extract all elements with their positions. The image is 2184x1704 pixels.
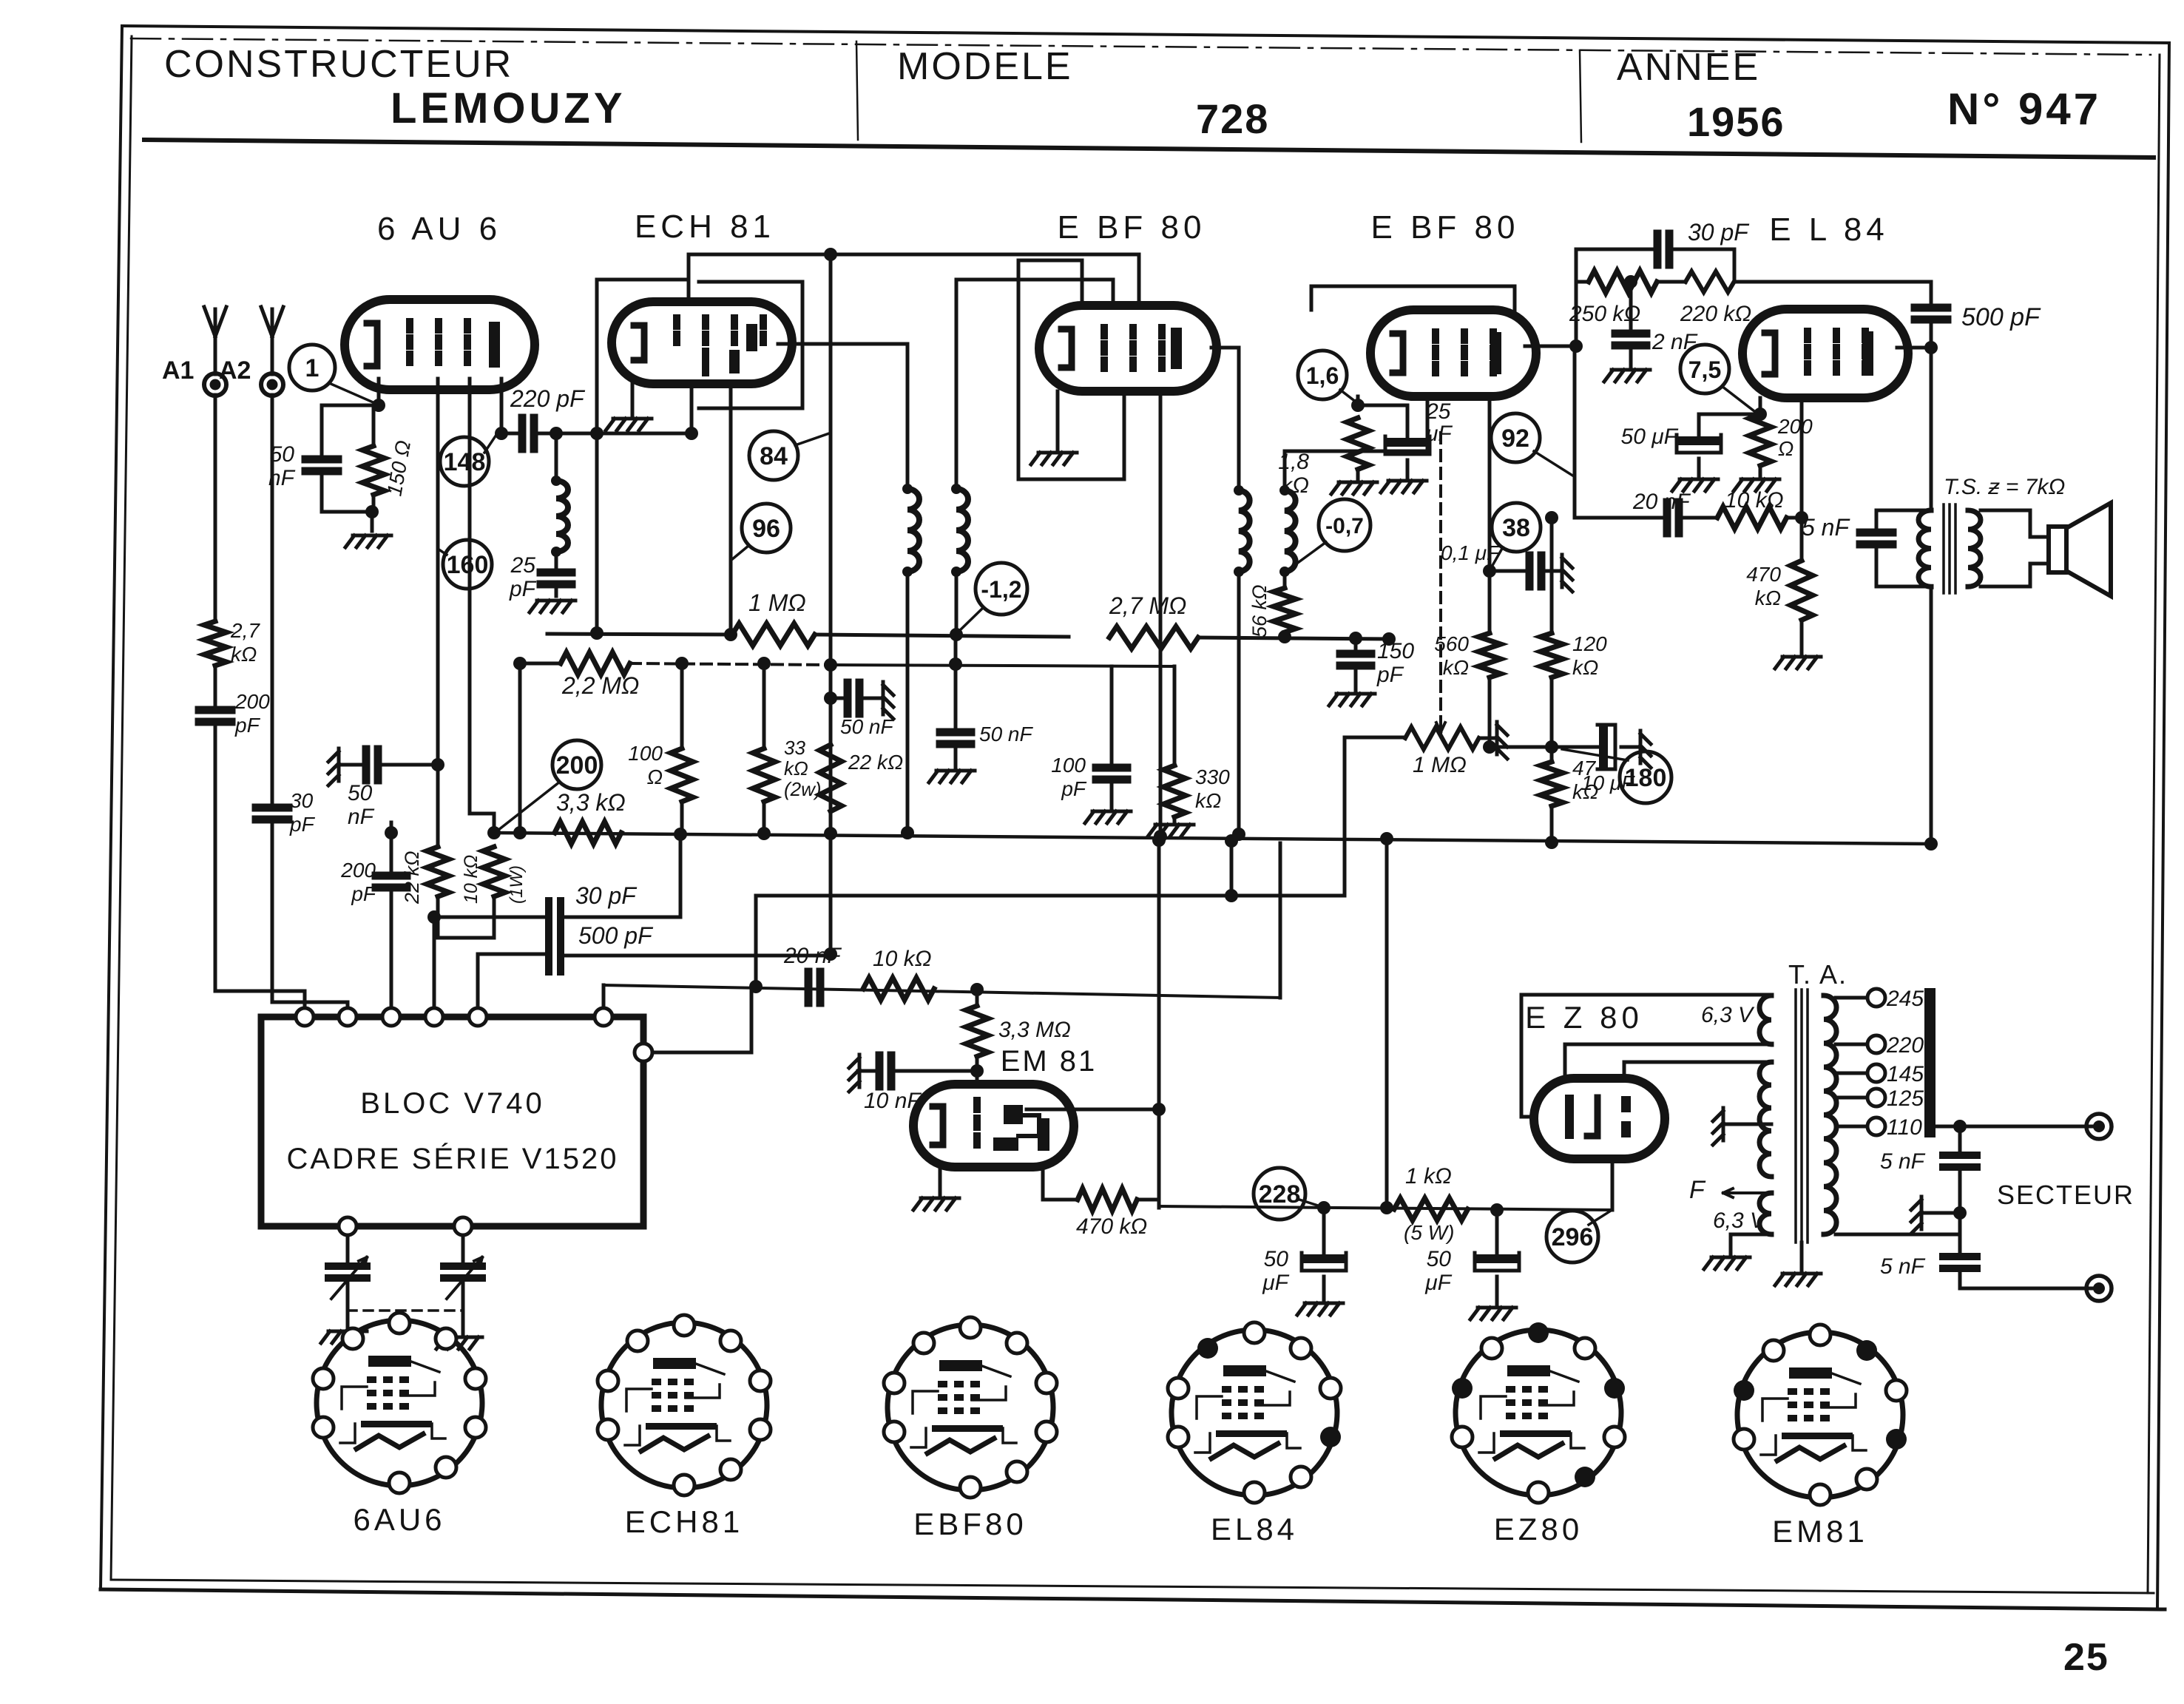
svg-text:pF: pF (509, 577, 537, 601)
svg-text:5 nF: 5 nF (1880, 1149, 1926, 1174)
svg-text:F: F (1689, 1176, 1706, 1204)
svg-text:500 pF: 500 pF (1961, 303, 2041, 331)
svg-text:BLOC V740: BLOC V740 (360, 1087, 544, 1120)
svg-text:kΩ: kΩ (1755, 586, 1781, 609)
svg-text:3,3 MΩ: 3,3 MΩ (998, 1018, 1071, 1042)
svg-text:200: 200 (234, 690, 270, 713)
svg-text:6,3 V: 6,3 V (1701, 1003, 1755, 1027)
svg-text:kΩ: kΩ (1195, 789, 1221, 812)
svg-text:200: 200 (340, 859, 376, 882)
svg-text:96: 96 (752, 515, 780, 543)
svg-text:245: 245 (1886, 987, 1924, 1011)
svg-text:CADRE SÉRIE V1520: CADRE SÉRIE V1520 (287, 1142, 619, 1175)
svg-text:470 kΩ: 470 kΩ (1076, 1214, 1147, 1239)
svg-text:(2w): (2w) (784, 778, 822, 800)
svg-text:200: 200 (1777, 415, 1813, 438)
svg-text:E BF 80: E BF 80 (1371, 209, 1520, 246)
svg-text:0,1 μF: 0,1 μF (1441, 541, 1501, 564)
svg-text:50: 50 (270, 442, 295, 467)
svg-text:μF: μF (1262, 1271, 1289, 1295)
svg-text:200: 200 (556, 751, 598, 780)
svg-text:kΩ: kΩ (1572, 656, 1598, 679)
svg-text:6 AU 6: 6 AU 6 (377, 211, 501, 247)
svg-text:ANNEE: ANNEE (1617, 46, 1760, 89)
svg-text:56 kΩ: 56 kΩ (1248, 584, 1271, 638)
svg-text:220 pF: 220 pF (510, 385, 586, 412)
svg-text:50 μF: 50 μF (1621, 425, 1679, 449)
svg-text:-1,2: -1,2 (981, 576, 1021, 603)
svg-text:25: 25 (510, 553, 536, 578)
svg-text:(5 W): (5 W) (1404, 1221, 1454, 1244)
svg-text:nF: nF (348, 805, 375, 829)
svg-text:T.S. ƶ = 7kΩ: T.S. ƶ = 7kΩ (1944, 475, 2065, 499)
svg-text:kΩ: kΩ (1572, 780, 1598, 803)
svg-text:T. A.: T. A. (1788, 959, 1847, 990)
svg-text:5 nF: 5 nF (1880, 1254, 1926, 1279)
svg-text:500 pF: 500 pF (578, 922, 654, 949)
svg-text:33: 33 (784, 737, 805, 759)
svg-text:1,8: 1,8 (1278, 450, 1309, 474)
svg-text:470: 470 (1746, 563, 1781, 586)
svg-text:20 nF: 20 nF (1632, 490, 1691, 514)
svg-text:10 kΩ: 10 kΩ (461, 855, 481, 904)
svg-text:kΩ: kΩ (1443, 656, 1469, 679)
svg-text:kΩ: kΩ (784, 757, 808, 780)
svg-text:EBF80: EBF80 (913, 1507, 1027, 1541)
svg-text:pF: pF (234, 714, 261, 737)
svg-text:1956: 1956 (1687, 98, 1785, 145)
svg-text:pF: pF (351, 882, 377, 905)
svg-text:A1: A1 (162, 356, 194, 385)
svg-text:MODELE: MODELE (897, 45, 1073, 88)
svg-text:84: 84 (760, 442, 788, 470)
svg-text:E BF 80: E BF 80 (1058, 209, 1206, 246)
svg-text:150: 150 (1377, 639, 1414, 663)
svg-text:-0,7: -0,7 (1325, 514, 1364, 538)
svg-text:ECH81: ECH81 (625, 1504, 743, 1539)
svg-text:22 kΩ: 22 kΩ (848, 751, 903, 774)
svg-text:6,3 V: 6,3 V (1713, 1208, 1767, 1233)
svg-text:160: 160 (447, 551, 489, 579)
svg-text:pF: pF (1061, 777, 1087, 800)
svg-text:(1W): (1W) (507, 865, 527, 904)
svg-text:LEMOUZY: LEMOUZY (391, 84, 626, 132)
svg-text:50 nF: 50 nF (840, 715, 894, 738)
svg-text:E L 84: E L 84 (1769, 212, 1889, 248)
svg-text:47: 47 (1572, 757, 1597, 780)
svg-text:50: 50 (1427, 1247, 1452, 1271)
svg-text:1 MΩ: 1 MΩ (748, 589, 806, 616)
svg-text:728: 728 (1196, 95, 1269, 142)
svg-text:10 nF: 10 nF (864, 1089, 922, 1113)
svg-text:EZ80: EZ80 (1494, 1512, 1583, 1546)
svg-text:148: 148 (444, 448, 486, 476)
svg-text:100: 100 (628, 742, 663, 765)
svg-text:330: 330 (1195, 765, 1230, 788)
svg-text:20 nF: 20 nF (783, 944, 842, 968)
svg-text:30 pF: 30 pF (575, 882, 638, 909)
svg-text:EM81: EM81 (1772, 1514, 1868, 1549)
svg-text:E Z 80: E Z 80 (1525, 1000, 1643, 1035)
svg-text:220 kΩ: 220 kΩ (1680, 302, 1751, 326)
svg-text:pF: pF (1376, 663, 1404, 687)
svg-text:125: 125 (1887, 1086, 1924, 1111)
svg-text:100: 100 (1051, 754, 1086, 777)
svg-text:30: 30 (290, 789, 314, 812)
svg-text:Ω: Ω (647, 765, 663, 788)
svg-text:2,7 MΩ: 2,7 MΩ (1109, 592, 1186, 619)
svg-text:nF: nF (268, 466, 296, 490)
svg-text:296: 296 (1552, 1223, 1594, 1251)
svg-text:50 nF: 50 nF (979, 723, 1033, 745)
svg-text:kΩ: kΩ (1281, 473, 1309, 498)
svg-text:1 MΩ: 1 MΩ (1413, 753, 1467, 777)
svg-text:1: 1 (305, 354, 320, 382)
svg-text:2,7: 2,7 (230, 619, 260, 642)
svg-text:120: 120 (1572, 632, 1607, 655)
svg-text:SECTEUR: SECTEUR (1997, 1180, 2134, 1210)
svg-text:N° 947: N° 947 (1947, 84, 2101, 134)
svg-text:110: 110 (1887, 1115, 1922, 1140)
svg-text:2,2 MΩ: 2,2 MΩ (561, 672, 639, 699)
svg-text:ECH 81: ECH 81 (635, 209, 775, 245)
svg-text:μF: μF (1425, 422, 1453, 446)
svg-text:145: 145 (1887, 1062, 1924, 1086)
svg-text:50: 50 (1264, 1247, 1289, 1271)
svg-text:pF: pF (289, 813, 316, 836)
svg-text:5 nF: 5 nF (1802, 514, 1850, 541)
svg-text:10 kΩ: 10 kΩ (873, 947, 932, 971)
svg-text:50: 50 (348, 781, 373, 805)
svg-text:6AU6: 6AU6 (353, 1502, 445, 1537)
svg-text:7,5: 7,5 (1688, 356, 1721, 383)
svg-text:10 kΩ: 10 kΩ (1725, 488, 1784, 513)
svg-text:1 kΩ: 1 kΩ (1405, 1164, 1452, 1189)
svg-text:kΩ: kΩ (231, 643, 257, 666)
svg-text:Ω: Ω (1778, 437, 1793, 460)
svg-text:25: 25 (2063, 1636, 2109, 1679)
svg-text:A2: A2 (219, 356, 251, 385)
svg-text:30 pF: 30 pF (1688, 219, 1750, 246)
svg-text:25: 25 (1425, 399, 1451, 424)
svg-text:μF: μF (1424, 1271, 1452, 1295)
svg-text:228: 228 (1259, 1180, 1301, 1208)
svg-text:1,6: 1,6 (1306, 362, 1339, 389)
svg-text:180: 180 (1625, 764, 1667, 792)
svg-text:220: 220 (1886, 1033, 1924, 1058)
svg-text:EM 81: EM 81 (1001, 1045, 1098, 1078)
svg-text:92: 92 (1501, 425, 1529, 453)
svg-text:EL84: EL84 (1211, 1512, 1298, 1546)
svg-text:3,3 kΩ: 3,3 kΩ (556, 789, 626, 816)
svg-text:CONSTRUCTEUR: CONSTRUCTEUR (164, 43, 513, 86)
svg-text:38: 38 (1502, 514, 1530, 542)
